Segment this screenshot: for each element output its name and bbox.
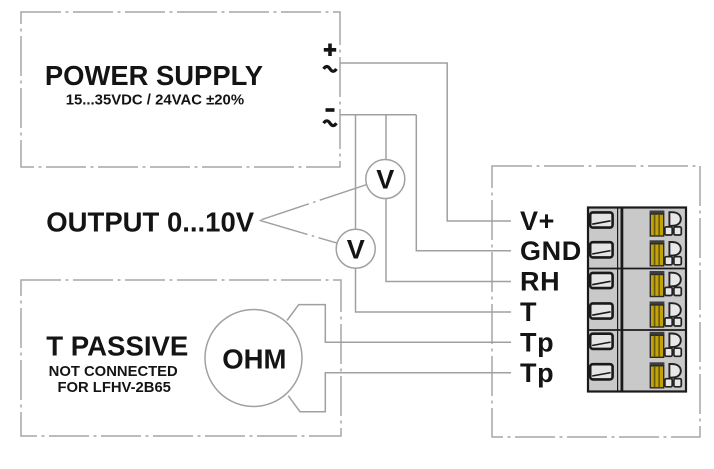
svg-text:T: T	[520, 297, 537, 327]
svg-text:GND: GND	[520, 236, 582, 266]
svg-text:NOT CONNECTED: NOT CONNECTED	[49, 364, 178, 380]
svg-text:FOR LFHV-2B65: FOR LFHV-2B65	[57, 380, 170, 396]
svg-text:V+: V+	[520, 206, 555, 236]
svg-text:V: V	[376, 165, 394, 195]
svg-text:POWER SUPPLY: POWER SUPPLY	[45, 60, 263, 91]
svg-text:RH: RH	[520, 267, 560, 297]
svg-text:OHM: OHM	[222, 344, 286, 375]
svg-text:V: V	[347, 234, 365, 264]
svg-text:Tp: Tp	[520, 327, 554, 357]
svg-text:OUTPUT 0...10V: OUTPUT 0...10V	[46, 206, 254, 237]
svg-text:T PASSIVE: T PASSIVE	[46, 330, 188, 361]
svg-text:Tp: Tp	[520, 358, 554, 388]
svg-text:15...35VDC / 24VAC ±20%: 15...35VDC / 24VAC ±20%	[66, 92, 244, 108]
